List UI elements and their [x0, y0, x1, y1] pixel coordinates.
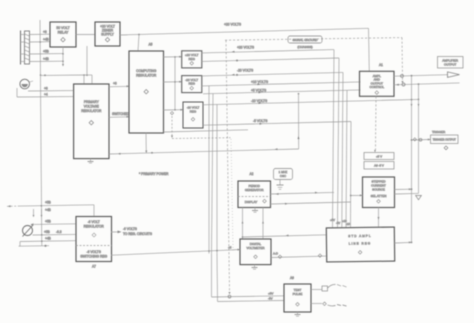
svg-text:SEL ATTEN: SEL ATTEN — [371, 194, 387, 198]
crystal symbol — [277, 180, 284, 190]
svg-text:GENERATOR: GENERATOR — [245, 188, 265, 192]
wire bus to stepped current source — [351, 194, 363, 196]
svg-text:-20 VOLTS: -20 VOLTS — [237, 69, 254, 73]
svg-text:+4B: +4B — [45, 236, 51, 240]
wire J1 to relay (line y42) — [30, 38, 51, 43]
wire -6V switching output long — [111, 250, 240, 256]
svg-text:REGULATOR: REGULATOR — [81, 109, 102, 113]
wire J1 to relay (line y34) — [30, 30, 51, 35]
wire x211 down to test pulse input 1 — [212, 253, 285, 298]
ground below test pulse — [295, 312, 301, 316]
label A9 — [290, 276, 294, 280]
wire J1 to node x63 (line y61.5) — [30, 57, 64, 62]
svg-text:+4: +4 — [44, 92, 48, 96]
svg-text:REG: REG — [188, 57, 195, 61]
wire bus -10V (L6) — [203, 99, 419, 105]
svg-text:STD AMPL: STD AMPL — [348, 234, 371, 238]
svg-text:+10 VOLTS: +10 VOLTS — [251, 80, 269, 84]
wire ampl output 1 with big arrow — [394, 72, 460, 78]
svg-text:SWITCHED: SWITCHED — [112, 112, 130, 116]
crystal osc box — [274, 169, 293, 180]
wire y235 to -6V reg — [33, 230, 76, 236]
test pulse block A9 — [284, 284, 311, 312]
digital voltmeter block A3 — [240, 239, 271, 265]
ampl and output control block A1 — [360, 71, 395, 96]
svg-text:A6 -5 V: A6 -5 V — [374, 164, 384, 168]
wire y224 to -6V reg — [34, 219, 76, 224]
wire bus L5 to ampl — [203, 88, 361, 94]
middle vertical x213 — [212, 94, 214, 254]
legend PRIMARY POWER — [139, 172, 169, 176]
wire relay bottom stub — [62, 47, 64, 67]
vertical x411.5 — [411, 76, 413, 243]
svg-text:CONTROL: CONTROL — [369, 85, 384, 89]
wire SCS out 2 — [395, 192, 419, 195]
wire ampl output 2 (shield) — [394, 83, 460, 86]
svg-text:SUPPLY: SUPPLY — [101, 33, 115, 37]
svg-text:REG: REG — [190, 109, 197, 113]
wire x217 down to test pulse input 2 — [217, 253, 284, 301]
svg-text:+8: +8 — [44, 87, 48, 91]
vertical bus drop x351 — [350, 122, 352, 228]
wire y131 — [164, 130, 249, 132]
svg-text:A1: A1 — [379, 63, 383, 67]
svg-text:VOLTAGE: VOLTAGE — [84, 105, 100, 109]
wire PG to DVM vertical 2 — [262, 208, 264, 240]
svg-text:+5V: +5V — [268, 292, 273, 296]
svg-text:TRIGGER: TRIGGER — [432, 130, 445, 134]
-6 volt regulator / switching block A7 — [76, 217, 112, 262]
svg-text:A5: A5 — [149, 43, 153, 47]
test pulse out 2 — [311, 302, 347, 306]
vertical bus drop x347 — [346, 90, 347, 227]
svg-text:-6.3: -6.3 — [56, 230, 62, 234]
dashed chassis vertical x227 — [226, 40, 231, 294]
amplifier output label box — [438, 57, 464, 69]
vertical bus drop x334 — [333, 50, 335, 228]
svg-text:REG: REG — [188, 82, 195, 86]
wire vertical x298.5 return — [298, 93, 300, 149]
wire y236 to std ampl — [242, 235, 327, 238]
svg-text:REGULATOR: REGULATOR — [136, 74, 157, 78]
svg-text:DISPLAY: DISPLAY — [245, 200, 257, 204]
wire y75 horizontal — [41, 74, 88, 76]
svg-text:-5V: -5V — [268, 297, 273, 301]
wire to trigger output — [411, 138, 431, 141]
wire bus L2 — [202, 58, 339, 62]
zener supply block (20 VOLT ZENER SUPPLY) — [95, 22, 120, 46]
svg-text:-6 VOLTS: -6 VOLTS — [123, 227, 137, 231]
label A2 — [250, 172, 254, 176]
svg-text:-5V: -5V — [336, 221, 340, 225]
svg-text:TRIGGER OUTPUT: TRIGGER OUTPUT — [433, 138, 457, 142]
svg-text:+20 VOLTS: +20 VOLTS — [224, 23, 242, 27]
vertical feed bus x175 — [174, 56, 176, 110]
svg-text:+5B: +5B — [45, 219, 51, 223]
std ampl block A8 — [326, 227, 394, 262]
arrow -6 VOLTS TO REG CIRCUITS — [111, 227, 152, 236]
svg-text:LINE REG: LINE REG — [349, 241, 372, 245]
wire PG to DVM vertical 1 — [242, 208, 244, 240]
svg-text:COMPUTING: COMPUTING — [136, 69, 157, 73]
label A1 — [379, 63, 383, 67]
wire relay to zener supply — [76, 34, 95, 36]
period generator block A2 — [238, 181, 271, 208]
test pulse out 1 — [311, 284, 347, 291]
vertical bus drop x339 — [338, 58, 340, 228]
svg-text:+4B: +4B — [43, 38, 49, 42]
+4B tick marks — [33, 208, 51, 217]
long wire y152 — [109, 148, 299, 154]
dotted chassis vertical x233 — [231, 139, 233, 248]
wire computing reg to -10 reg — [164, 109, 184, 111]
svg-text:+5B: +5B — [43, 50, 49, 54]
svg-text:* PRIMARY POWER: * PRIMARY POWER — [139, 172, 169, 176]
ground triangle x418.5 — [416, 196, 422, 200]
svg-text:+5V: +5V — [330, 218, 335, 222]
svg-text:SOURCE: SOURCE — [372, 188, 385, 192]
primary voltage regulator block A4 — [74, 84, 109, 159]
svg-text:A2: A2 — [250, 172, 254, 176]
ground below period generator — [252, 208, 258, 213]
dashed wire y138 to asterisk — [172, 136, 231, 141]
wire bus +20V (L1) — [202, 46, 334, 53]
svg-text:TO REG. CIRCUITS: TO REG. CIRCUITS — [123, 232, 152, 236]
svg-text:OSC: OSC — [280, 174, 286, 178]
svg-text:+5: +5 — [228, 246, 232, 250]
-20 volt regulator block — [182, 76, 202, 93]
svg-text:A-D: A-D — [273, 252, 278, 256]
middle vertical x209 — [208, 86, 210, 254]
middle vertical x217 — [216, 104, 218, 253]
svg-text:+5B: +5B — [44, 230, 50, 234]
small box S1 — [364, 153, 394, 160]
node diamond near -10 reg input — [170, 112, 173, 139]
vertical x418.5 — [418, 84, 420, 193]
trigger output label box — [431, 130, 459, 144]
svg-text:+5 V: +5 V — [376, 155, 382, 159]
wire lamp loop + y97 — [17, 88, 74, 97]
dashed drop from ampl bottom — [374, 96, 376, 152]
svg-text:(CHASSIS): (CHASSIS) — [297, 45, 312, 49]
wire PVR to computing reg (SWITCHED) — [109, 112, 130, 118]
svg-text:-10: -10 — [346, 222, 350, 226]
main vertical wire x41.5 — [39, 20, 41, 246]
svg-text:+8: +8 — [113, 82, 117, 86]
wire drops into primary regulator top — [84, 75, 92, 84]
label A5 — [149, 43, 153, 47]
dashed stub left of +5B wire — [7, 205, 19, 207]
vertical bus drop x343 — [342, 72, 343, 227]
connector J1 terminal strip — [21, 31, 30, 65]
+20 volt regulator block — [182, 51, 202, 68]
svg-text:-5 VOLTS: -5 VOLTS — [253, 119, 268, 123]
wire PG out 1 — [271, 192, 335, 195]
dashed signal ground bus — [225, 36, 404, 84]
ground below primary regulator — [88, 159, 94, 163]
svg-text:A7: A7 — [92, 265, 96, 269]
pilot lamp DS1 (top circle) — [20, 79, 33, 89]
-10 volt regulator block — [183, 102, 203, 128]
wire lamp to primary regulator y91 — [28, 87, 74, 92]
wire PVR to computing reg (+8) — [109, 82, 129, 88]
ground below DVM — [252, 265, 258, 270]
svg-text:SWITCHING REG: SWITCHING REG — [80, 254, 107, 258]
svg-text:-10 VOLTS: -10 VOLTS — [251, 99, 268, 103]
computing regulator block A5 — [129, 51, 164, 133]
wire zener bottom stub x87 — [86, 46, 88, 76]
svg-text:PULSE: PULSE — [293, 292, 303, 296]
wire DVM output to std ampl — [271, 252, 327, 259]
diamond below trigger box — [444, 146, 448, 150]
wire J1 to node x63 (line y54) — [30, 50, 64, 55]
wire SCS out 1 — [395, 188, 413, 190]
labels above std ampl — [330, 218, 350, 226]
svg-text:+4B: +4B — [45, 208, 51, 212]
wire computing reg to -20 reg — [164, 81, 183, 83]
wire +5B y205 — [19, 201, 94, 216]
svg-text:VOLTMETER: VOLTMETER — [246, 246, 265, 250]
wire zener drop to computing regulator — [138, 35, 139, 52]
svg-text:+8: +8 — [43, 30, 47, 34]
wire bus +10V (L4) to ampl — [202, 80, 361, 86]
wire SCS bottom to std ampl — [378, 208, 380, 228]
svg-text:RELAY: RELAY — [58, 31, 70, 35]
wire std ampl out — [395, 241, 413, 243]
svg-text:50 VOLT: 50 VOLT — [56, 26, 69, 30]
svg-text:A9: A9 — [290, 276, 294, 280]
wire computing reg to +20 reg — [164, 56, 183, 58]
stepped current source block A6 — [363, 177, 395, 208]
svg-text:+20 VOLTS: +20 VOLTS — [237, 46, 255, 50]
wire bus -20V (L3) — [202, 69, 343, 76]
wire y246 — [19, 245, 50, 247]
svg-text:PRIMARY: PRIMARY — [84, 100, 100, 104]
wire PG out 2 — [271, 202, 352, 205]
wire +20V top bus — [120, 23, 369, 72]
svg-text:OUTPUT: OUTPUT — [444, 63, 457, 67]
relay block A10 (50 VOLT RELAY) — [50, 22, 76, 47]
svg-text:SIGNAL GROUND: SIGNAL GROUND — [292, 38, 318, 42]
wire y241 to -6V reg — [20, 236, 76, 246]
wire computing reg bottom drop — [145, 133, 147, 153]
label A7 below — [92, 265, 96, 269]
svg-text:+4B: +4B — [43, 57, 49, 61]
wire bus -5V (L7) — [203, 119, 351, 125]
lamp DS2 (bottom circle) — [23, 223, 34, 236]
svg-text:REGULATOR: REGULATOR — [84, 224, 105, 228]
wire into DVM left — [228, 246, 240, 251]
small box S2 — [364, 162, 394, 170]
svg-text:+5B: +5B — [45, 201, 51, 205]
